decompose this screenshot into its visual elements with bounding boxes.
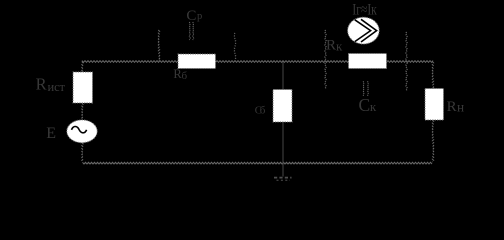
svg-text:R: R: [447, 99, 457, 115]
svg-text:Iг≈Iк: Iг≈Iк: [352, 1, 377, 18]
svg-text:р: р: [197, 11, 202, 22]
svg-text:н: н: [457, 100, 464, 115]
svg-text:С: С: [359, 95, 371, 115]
svg-text:к: к: [370, 99, 377, 114]
svg-text:R: R: [36, 75, 47, 94]
svg-text:к: к: [336, 38, 343, 53]
svg-text:C: C: [186, 8, 196, 24]
svg-text:E: E: [46, 125, 56, 142]
svg-text:R: R: [326, 37, 336, 53]
svg-text:ист: ист: [48, 80, 66, 94]
svg-text:б: б: [182, 70, 188, 82]
svg-text:б: б: [260, 105, 266, 117]
